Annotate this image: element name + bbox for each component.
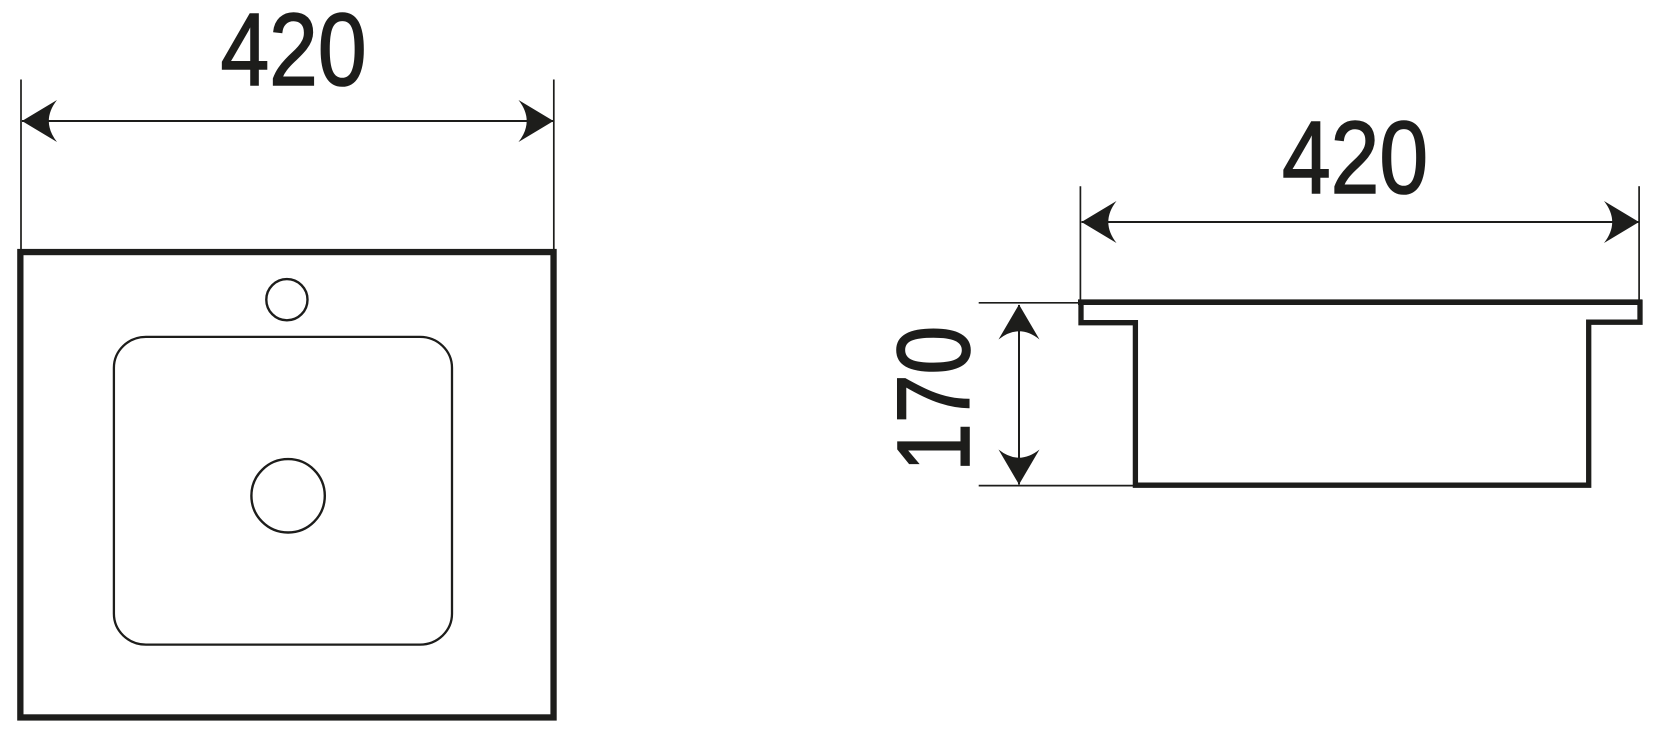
svg-text:170: 170 <box>877 326 992 472</box>
dimension line 170 <box>1018 305 1020 485</box>
arrowhead up <box>999 305 1040 340</box>
arrowhead left <box>22 100 57 142</box>
dimension line 420 (side view) <box>1082 221 1640 223</box>
arrowhead down <box>999 450 1040 485</box>
dimension line 420 (top view) <box>22 120 554 122</box>
svg-text:420: 420 <box>1282 100 1428 215</box>
right extension line <box>553 80 555 251</box>
arrowhead right (side view) <box>1604 201 1639 243</box>
arrowhead right <box>519 100 554 142</box>
inner bowl (rounded square) <box>114 337 452 645</box>
left extension line <box>20 80 22 251</box>
basin outer rim (square) <box>20 252 553 717</box>
arrowhead left (side view) <box>1082 201 1117 243</box>
170: bottom extension line <box>979 485 1135 487</box>
svg-text:420: 420 <box>220 0 366 107</box>
170: top extension line <box>979 302 1081 304</box>
profile body outline <box>1081 300 1640 485</box>
right 420: left extension line <box>1079 186 1081 318</box>
profile top edge <box>1078 299 1643 305</box>
drain hole <box>251 459 324 532</box>
faucet hole <box>266 279 307 320</box>
right 420: right extension line <box>1638 186 1640 300</box>
